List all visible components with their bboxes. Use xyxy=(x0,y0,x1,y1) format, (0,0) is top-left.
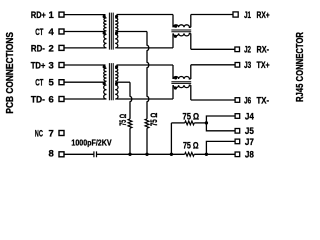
svg-text:J8: J8 xyxy=(245,150,254,161)
svg-text:75 Ω: 75 Ω xyxy=(118,114,128,126)
choke L2 top dot xyxy=(174,76,177,79)
svg-text:J1: J1 xyxy=(244,10,251,21)
wire node to J7 xyxy=(206,141,235,154)
svg-text:4: 4 xyxy=(49,27,55,38)
wire choke L2 to J6 xyxy=(191,99,235,101)
transformer T2 left winding lower (CT-pin6) xyxy=(104,85,107,99)
choke L2 left vertical top xyxy=(172,65,174,79)
resistor R1 75ohm zigzag xyxy=(145,119,149,128)
svg-text:J4: J4 xyxy=(245,111,255,122)
pin 7 terminal (NC) xyxy=(59,131,64,136)
terminal J6 xyxy=(235,98,240,103)
svg-text:CT: CT xyxy=(35,27,43,38)
wire capacitor to bottom bus xyxy=(97,153,185,155)
wire pin 8 to capacitor xyxy=(64,153,93,155)
choke L1 left vertical top xyxy=(172,15,174,28)
svg-text:J7: J7 xyxy=(245,137,254,148)
resistor R3 75ohm zigzag xyxy=(185,121,194,125)
terminal J5 xyxy=(235,129,240,134)
junction R2/bus xyxy=(128,153,131,156)
svg-text:NC: NC xyxy=(35,128,43,139)
transformer T1 left winding upper (pin1-CT) xyxy=(104,18,107,31)
choke L2 top coil xyxy=(173,77,191,80)
svg-text:J6: J6 xyxy=(244,95,251,106)
choke L2 bottom coil xyxy=(173,85,191,88)
transformer T2 right winding lower xyxy=(115,85,118,99)
choke L1 bottom coil xyxy=(173,33,191,36)
svg-text:7: 7 xyxy=(49,128,54,139)
wire choke L1 to J1 xyxy=(191,14,233,16)
choke L1 right vertical bottom xyxy=(190,33,192,49)
choke L1 bottom dot xyxy=(174,35,177,38)
wire choke L1 to J2 xyxy=(191,48,235,50)
junction R3/bus xyxy=(170,153,173,156)
wire pin 3 to transformer xyxy=(64,64,106,66)
svg-text:TD-: TD- xyxy=(31,94,45,105)
wire bus up to R3 xyxy=(170,123,172,154)
choke L2 bottom dot xyxy=(174,86,177,89)
choke L1 left vertical bottom xyxy=(172,33,174,48)
T2 phase dot secondary upper xyxy=(115,65,118,68)
wire bottom bus to J8 xyxy=(194,153,235,155)
terminal J1 xyxy=(233,12,238,17)
svg-text:1: 1 xyxy=(49,10,55,21)
wire pin 2 to transformer xyxy=(64,47,106,49)
wire to R3 xyxy=(171,122,184,124)
T1 phase dot secondary lower xyxy=(115,31,118,34)
choke L1 top dot xyxy=(174,25,177,28)
wire T2 secondary top to choke L2 xyxy=(117,64,174,66)
wire pin 1 to transformer xyxy=(64,14,106,16)
choke L2 core xyxy=(171,82,191,84)
svg-text:75 Ω: 75 Ω xyxy=(149,113,159,126)
pin 6 terminal xyxy=(59,97,64,102)
choke L1 core xyxy=(171,30,191,32)
choke L2 right vertical bottom xyxy=(190,85,192,100)
resistor R2 75ohm zigzag xyxy=(128,119,132,128)
transformer T2 left winding upper (pin3-CT) xyxy=(104,68,107,81)
svg-text:RX-: RX- xyxy=(257,45,270,56)
choke L2 right vertical top xyxy=(190,65,192,79)
svg-text:J2: J2 xyxy=(244,45,251,56)
junction R1/bus xyxy=(145,153,148,156)
svg-text:RD+: RD+ xyxy=(31,10,46,21)
T2 phase dot primary lower xyxy=(103,82,106,85)
wire pin 5 to transformer xyxy=(64,81,106,83)
pin 3 terminal xyxy=(59,63,64,68)
wire pin 4 to transformer xyxy=(64,31,106,33)
T2 phase dot secondary lower xyxy=(115,82,118,85)
pin 5 terminal xyxy=(59,80,64,85)
resistor R4 75ohm zigzag xyxy=(185,152,194,156)
wire T2 secondary bottom to choke L2 xyxy=(117,98,174,100)
svg-text:RD-: RD- xyxy=(31,43,45,54)
svg-text:PCB CONNECTIONS: PCB CONNECTIONS xyxy=(5,32,16,114)
svg-text:J3: J3 xyxy=(244,60,251,71)
svg-text:1000pF/2KV: 1000pF/2KV xyxy=(71,138,112,148)
wire T1 secondary center tap xyxy=(117,31,148,33)
T1 phase dot primary upper xyxy=(103,15,106,18)
transformer T1 right winding lower xyxy=(115,34,118,48)
wire T1 secondary bottom to choke L1 xyxy=(117,47,174,49)
svg-text:TX-: TX- xyxy=(257,95,270,106)
choke L2 left vertical bottom xyxy=(172,85,174,99)
svg-text:RX+: RX+ xyxy=(257,10,271,21)
T1 phase dot secondary upper xyxy=(115,15,118,18)
terminal J8 xyxy=(235,152,240,157)
pin 8 terminal xyxy=(59,152,64,157)
svg-text:TX+: TX+ xyxy=(257,60,271,71)
transformer T1 right winding upper xyxy=(115,18,118,31)
wire R2 to bottom bus xyxy=(129,128,131,154)
junction node J4/J5 xyxy=(205,121,208,124)
svg-text:3: 3 xyxy=(49,60,54,71)
wire T2 secondary center tap xyxy=(117,81,131,83)
pin 2 terminal xyxy=(59,45,64,50)
choke L1 top coil xyxy=(173,25,191,28)
svg-text:8: 8 xyxy=(49,149,54,160)
capacitor C1 1000pF/2KV plates xyxy=(94,151,97,157)
wire R3 to node xyxy=(194,122,206,124)
wire node to J4/J5 branch xyxy=(206,116,235,131)
wire pin 6 to transformer xyxy=(64,98,106,100)
choke L1 right vertical top xyxy=(190,15,192,28)
T1 phase dot primary lower xyxy=(103,31,106,34)
svg-text:75 Ω: 75 Ω xyxy=(183,111,200,121)
pin 1 terminal xyxy=(59,12,64,17)
terminal J4 xyxy=(235,114,240,119)
svg-text:75 Ω: 75 Ω xyxy=(183,141,199,151)
svg-text:5: 5 xyxy=(49,78,55,89)
T2 phase dot primary upper xyxy=(103,65,106,68)
wire T2 CT down to R2 (with crossover hop) xyxy=(130,82,132,119)
transformer T1 left winding lower (CT-pin2) xyxy=(104,34,107,48)
svg-text:2: 2 xyxy=(49,43,54,54)
junction node J7 xyxy=(205,153,208,156)
wire R1 to bottom bus xyxy=(146,128,148,154)
pin 4 terminal xyxy=(59,29,64,34)
wire choke L2 to J3 xyxy=(191,64,235,66)
transformer T2 core xyxy=(109,63,113,100)
wire T1 CT down to R1 (with crossover hops) xyxy=(147,32,149,119)
terminal J3 xyxy=(235,63,240,68)
wire T1 secondary top to choke L1 xyxy=(117,14,174,16)
svg-text:RJ45 CONNECTOR: RJ45 CONNECTOR xyxy=(295,31,306,102)
svg-text:CT: CT xyxy=(35,78,43,89)
terminal J2 xyxy=(235,47,240,52)
svg-text:TD+: TD+ xyxy=(31,60,46,71)
transformer T2 right winding upper xyxy=(115,68,118,81)
svg-text:6: 6 xyxy=(49,94,54,105)
terminal J7 xyxy=(235,139,240,144)
transformer T1 core xyxy=(109,13,113,50)
svg-text:J5: J5 xyxy=(245,126,255,137)
